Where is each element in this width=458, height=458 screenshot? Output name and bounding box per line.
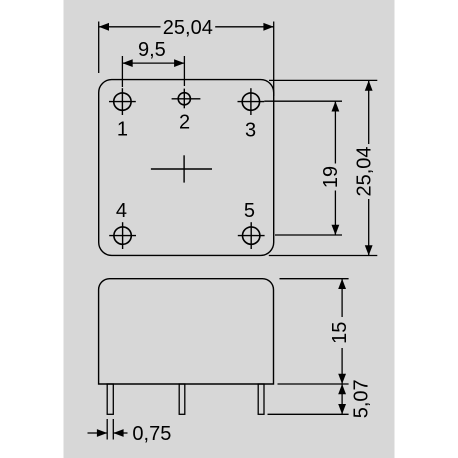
dimension 5,07 <box>268 384 349 414</box>
pin 2 <box>172 89 201 109</box>
pin 3 <box>238 88 265 115</box>
dimension 9,5 <box>122 56 184 87</box>
svg-text:15: 15 <box>329 322 351 344</box>
svg-text:3: 3 <box>245 119 256 141</box>
dimension 25,04 top <box>99 22 274 97</box>
svg-text:25,04: 25,04 <box>163 17 213 39</box>
pin 4 <box>109 222 136 249</box>
side view pin left <box>107 384 113 414</box>
pin 5 <box>238 222 265 249</box>
svg-text:1: 1 <box>117 119 128 141</box>
dimension 25,04 right <box>269 80 378 255</box>
svg-text:0,75: 0,75 <box>132 423 171 445</box>
center mark cross <box>151 155 212 182</box>
dimension 0,75 <box>88 419 128 440</box>
svg-text:4: 4 <box>116 200 127 222</box>
svg-text:5,07: 5,07 <box>350 379 372 418</box>
svg-text:9,5: 9,5 <box>138 39 166 61</box>
side view pin middle <box>179 384 185 414</box>
svg-text:2: 2 <box>179 112 190 134</box>
top view package outline <box>99 80 274 256</box>
gray drawing panel <box>64 0 395 458</box>
dimension 15 <box>278 279 349 384</box>
dimension 19 right <box>264 101 342 235</box>
side view pin right <box>258 384 264 414</box>
svg-text:25,04: 25,04 <box>354 146 376 196</box>
svg-text:5: 5 <box>244 200 255 222</box>
svg-text:19: 19 <box>320 166 342 188</box>
side view body outline <box>99 279 274 384</box>
pin 1 <box>109 88 136 115</box>
